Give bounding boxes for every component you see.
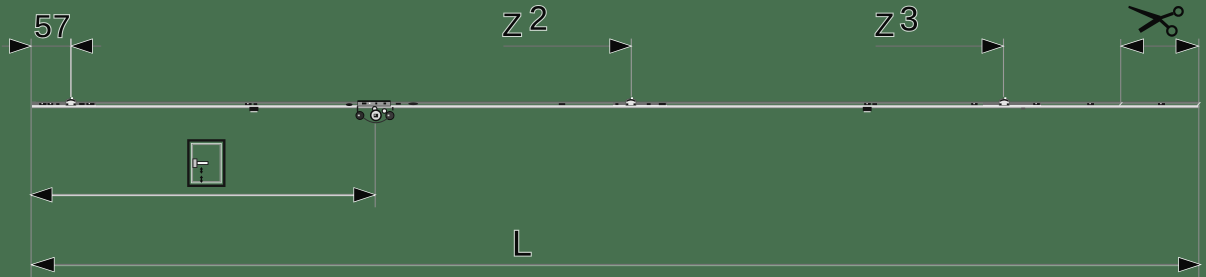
cut mark on rail right [1197, 102, 1200, 105]
dimension Z3: arrowhead [982, 39, 1004, 53]
gearbox dimension: arrowheads [30, 188, 52, 202]
gearbox center follower [371, 107, 381, 121]
gearbox right wheel [386, 107, 394, 120]
window handle [193, 159, 208, 168]
dimension L: label [515, 231, 531, 256]
handle movement arrows [200, 167, 203, 183]
gearbox nut arc [364, 118, 389, 123]
cut zone: arrowheads [1121, 39, 1144, 53]
dimension L: arrowheads [31, 257, 54, 271]
screw slots on face plate [39, 103, 1165, 105]
gearbox right small pin [382, 109, 386, 113]
dimension Z3: dimension line [876, 45, 1004, 47]
cam roller 1 [66, 97, 76, 105]
dimension L: dimension line [31, 264, 1199, 266]
dimension Z3: label [876, 14, 894, 36]
gearbox left wheel [356, 106, 364, 119]
connector block below rail at x=250 [249, 107, 258, 112]
white speckles in slots [42, 103, 1162, 104]
separator highlights [32, 104, 96, 107]
gearbox plate on rail [358, 101, 391, 106]
dimension 57: arrowheads [10, 39, 32, 53]
dimension Z2: label [503, 14, 521, 36]
oval mark right of gearbox [408, 103, 418, 106]
dimension Z3: extension line [1003, 39, 1005, 97]
scissors icon [1128, 6, 1182, 36]
gearbox dimension: extension line [374, 124, 376, 208]
dark oval left of gearbox [346, 103, 353, 106]
cam roller 2 [626, 97, 636, 105]
rail drive rod (lower bright band) [32, 105, 1200, 109]
small piece below rail at x=1022 [1021, 108, 1025, 110]
dimension Z2: arrowhead [610, 39, 632, 53]
dimension 57: label [35, 15, 50, 37]
cam roller 3 [999, 97, 1009, 105]
cut zone: dimension line [1142, 45, 1178, 47]
cut mark on rail left [1119, 102, 1122, 105]
backplate left end piece [32, 102, 96, 105]
dimension 57: dimension line tails [2, 45, 101, 47]
backplate under cam 2 [613, 102, 667, 105]
window icon with handle [188, 140, 224, 185]
gearbox dimension: dimension line [31, 193, 375, 195]
dimension 57: extension line left [30, 39, 32, 277]
dimension Z2: dimension line [503, 45, 631, 47]
dimension Z2: extension line [630, 39, 632, 97]
backplate under cam 3 [983, 102, 1041, 105]
cut zone: extension line left [1120, 39, 1122, 104]
cut zone: extension line right [1198, 39, 1200, 277]
rail face plate (upper gray band) [32, 102, 1200, 105]
dimension 57: extension line right [70, 39, 72, 97]
connector block below rail at x=866 [863, 107, 872, 112]
